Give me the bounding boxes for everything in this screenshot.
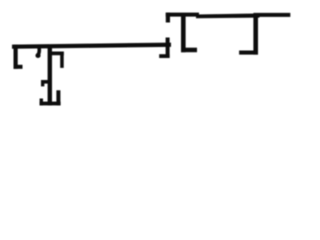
wire: top bus left end stub	[166, 13, 170, 23]
tap T1: right foot	[181, 48, 197, 53]
node A: left bracket vertical	[14, 45, 18, 69]
wire: left tick on stem	[41, 80, 49, 84]
wire: middle horizontal bus	[12, 43, 171, 49]
tap T2: stem	[253, 15, 258, 55]
wire: left stem vertical	[48, 46, 52, 105]
tap T2: left foot	[239, 51, 258, 55]
ground: bottom bar	[40, 102, 61, 106]
wire: h-bar right of stem	[51, 52, 64, 56]
wire: top bus segment B	[196, 13, 260, 18]
node B: cross stub at bus right end	[166, 38, 170, 59]
ground: bottom-left stub	[40, 99, 43, 106]
ground: bottom-right stub	[56, 90, 60, 105]
wire: tick end stub	[41, 80, 44, 86]
junction: droplet hook on bus	[36, 47, 41, 54]
wire: top bus segment A	[166, 13, 199, 17]
wire: h-bar right leg	[60, 52, 64, 68]
tap T1: stem	[181, 14, 186, 52]
wire: left bracket bottom foot	[14, 65, 23, 69]
wire: top bus segment C	[253, 13, 290, 17]
wire: hook foot left	[159, 54, 169, 58]
